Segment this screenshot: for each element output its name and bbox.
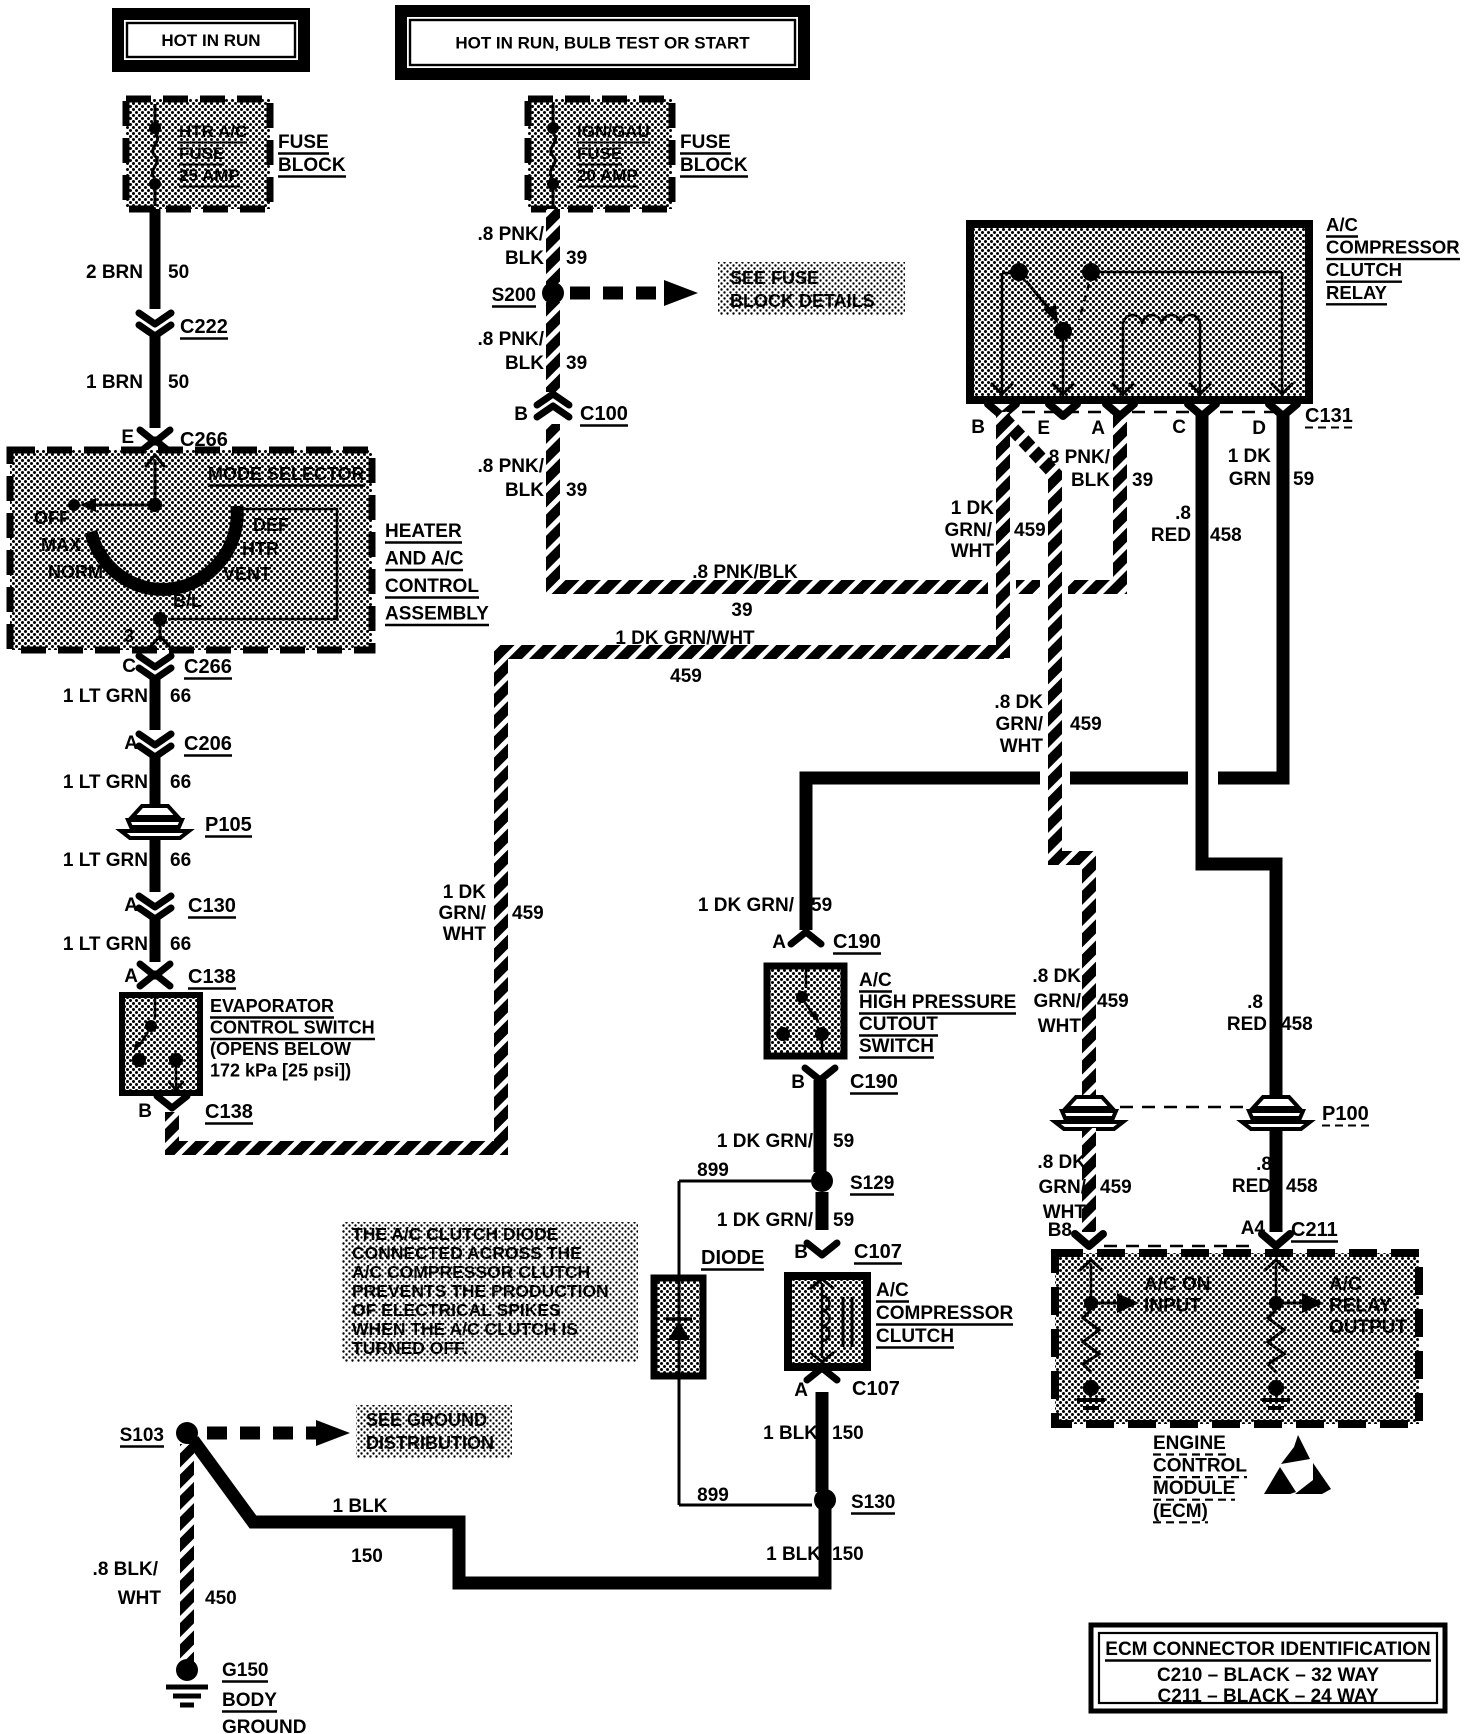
svg-text:.8 BLK/: .8 BLK/: [93, 1559, 159, 1580]
svg-text:PREVENTS THE PRODUCTION: PREVENTS THE PRODUCTION: [352, 1281, 609, 1301]
svg-text:.8: .8: [1247, 992, 1263, 1013]
svg-text:S103: S103: [120, 1425, 164, 1446]
svg-text:GRN: GRN: [1229, 469, 1271, 490]
svg-text:A/C: A/C: [1326, 214, 1358, 235]
svg-text:ASSEMBLY: ASSEMBLY: [385, 604, 489, 625]
svg-text:P100: P100: [1322, 1103, 1369, 1125]
svg-text:39: 39: [566, 353, 587, 374]
svg-text:66: 66: [170, 686, 191, 707]
svg-text:FUSE: FUSE: [278, 132, 329, 153]
svg-text:WHT: WHT: [443, 924, 487, 945]
svg-text:BLK: BLK: [505, 353, 544, 374]
svg-text:A/C: A/C: [1329, 1274, 1362, 1295]
svg-text:C107: C107: [852, 1378, 900, 1400]
svg-text:C138: C138: [188, 966, 236, 988]
svg-text:39: 39: [566, 248, 587, 269]
svg-text:59: 59: [833, 1210, 854, 1231]
svg-text:COMPRESSOR: COMPRESSOR: [1326, 237, 1460, 258]
svg-text:HTR: HTR: [242, 539, 279, 559]
svg-text:50: 50: [168, 372, 189, 393]
svg-text:GRN/: GRN/: [1034, 991, 1082, 1012]
svg-text:RED: RED: [1232, 1176, 1272, 1197]
svg-text:A/C: A/C: [859, 970, 892, 991]
svg-text:WHEN THE A/C CLUTCH IS: WHEN THE A/C CLUTCH IS: [352, 1319, 578, 1339]
svg-text:HOT IN RUN, BULB TEST OR START: HOT IN RUN, BULB TEST OR START: [455, 34, 750, 53]
svg-text:66: 66: [170, 934, 191, 955]
svg-text:SWITCH: SWITCH: [859, 1036, 934, 1057]
svg-text:1 BLK: 1 BLK: [766, 1544, 821, 1565]
svg-text:A/C ON: A/C ON: [1144, 1274, 1211, 1295]
svg-text:66: 66: [170, 772, 191, 793]
svg-text:G150: G150: [222, 1660, 268, 1681]
svg-text:1 LT GRN: 1 LT GRN: [63, 934, 148, 955]
svg-text:B: B: [791, 1072, 805, 1093]
svg-text:C222: C222: [180, 316, 228, 338]
svg-text:GROUND: GROUND: [222, 1717, 306, 1734]
svg-text:HTR A/C: HTR A/C: [179, 122, 247, 141]
svg-text:C211 – BLACK – 24 WAY: C211 – BLACK – 24 WAY: [1157, 1686, 1378, 1707]
svg-text:MAX: MAX: [41, 535, 81, 555]
svg-text:OFF: OFF: [34, 508, 70, 528]
svg-text:459: 459: [1014, 520, 1046, 541]
svg-text:A/C COMPRESSOR CLUTCH: A/C COMPRESSOR CLUTCH: [352, 1262, 590, 1282]
svg-text:59: 59: [1293, 469, 1314, 490]
svg-text:WHT: WHT: [1038, 1016, 1082, 1037]
svg-text:C107: C107: [854, 1241, 902, 1263]
svg-text:C266: C266: [184, 656, 232, 678]
svg-text:AND A/C: AND A/C: [385, 549, 464, 570]
svg-text:20 AMP: 20 AMP: [577, 166, 638, 185]
svg-text:459: 459: [1100, 1177, 1132, 1198]
svg-text:B: B: [794, 1242, 808, 1263]
svg-text:39: 39: [1132, 470, 1153, 491]
svg-text:1 BLK: 1 BLK: [763, 1423, 818, 1444]
svg-text:E: E: [1037, 418, 1050, 439]
svg-text:(OPENS BELOW: (OPENS BELOW: [210, 1039, 351, 1059]
svg-text:1 DK GRN/: 1 DK GRN/: [717, 1210, 814, 1231]
svg-text:150: 150: [832, 1423, 864, 1444]
svg-text:GRN/: GRN/: [439, 903, 487, 924]
svg-text:WHT: WHT: [951, 541, 995, 562]
svg-text:BLK: BLK: [505, 248, 544, 269]
svg-text:GRN/: GRN/: [945, 520, 993, 541]
svg-text:BLK: BLK: [1071, 470, 1110, 491]
svg-text:458: 458: [1286, 1176, 1318, 1197]
svg-text:.8 PNK/BLK: .8 PNK/BLK: [692, 562, 798, 583]
svg-text:S130: S130: [851, 1492, 895, 1513]
svg-text:459: 459: [670, 666, 702, 687]
svg-text:E: E: [121, 427, 134, 448]
svg-text:459: 459: [512, 903, 544, 924]
svg-text:A: A: [772, 932, 786, 953]
svg-text:MODULE: MODULE: [1153, 1478, 1235, 1499]
svg-text:450: 450: [205, 1588, 237, 1609]
svg-text:A: A: [124, 966, 138, 987]
svg-text:59: 59: [811, 895, 832, 916]
svg-text:B/L: B/L: [173, 591, 202, 611]
svg-text:899: 899: [697, 1160, 729, 1181]
svg-text:C: C: [1172, 417, 1186, 438]
svg-text:P105: P105: [205, 814, 252, 836]
svg-text:.8 PNK/: .8 PNK/: [477, 224, 544, 245]
svg-text:RED: RED: [1227, 1014, 1267, 1035]
svg-text:66: 66: [170, 850, 191, 871]
svg-text:A: A: [124, 733, 138, 754]
svg-text:CLUTCH: CLUTCH: [876, 1326, 954, 1347]
svg-text:DIODE: DIODE: [701, 1247, 764, 1269]
svg-text:A: A: [794, 1380, 808, 1401]
svg-text:1 DK: 1 DK: [951, 498, 995, 519]
svg-text:C130: C130: [188, 895, 236, 917]
svg-text:FUSE: FUSE: [577, 144, 622, 163]
svg-text:HOT IN RUN: HOT IN RUN: [161, 31, 260, 50]
svg-text:458: 458: [1281, 1014, 1313, 1035]
svg-text:HEATER: HEATER: [385, 521, 462, 542]
svg-text:THE A/C CLUTCH DIODE: THE A/C CLUTCH DIODE: [352, 1224, 558, 1244]
svg-text:BODY: BODY: [222, 1690, 277, 1711]
svg-text:B8: B8: [1048, 1220, 1072, 1241]
svg-text:25 AMP: 25 AMP: [179, 166, 240, 185]
svg-text:1 LT GRN: 1 LT GRN: [63, 850, 148, 871]
svg-text:S129: S129: [850, 1173, 894, 1194]
svg-text:1 LT GRN: 1 LT GRN: [63, 686, 148, 707]
svg-text:150: 150: [832, 1544, 864, 1565]
svg-text:CLUTCH: CLUTCH: [1326, 259, 1402, 280]
svg-text:458: 458: [1210, 525, 1242, 546]
svg-text:TURNED OFF.: TURNED OFF.: [352, 1338, 468, 1358]
svg-text:S200: S200: [492, 285, 536, 306]
svg-text:1 DK: 1 DK: [1228, 446, 1272, 467]
svg-text:FUSE: FUSE: [680, 132, 731, 153]
svg-text:1 DK GRN/: 1 DK GRN/: [698, 895, 795, 916]
svg-text:C: C: [122, 656, 136, 677]
svg-text:1 LT GRN: 1 LT GRN: [63, 772, 148, 793]
svg-text:MODE SELECTOR: MODE SELECTOR: [208, 464, 365, 484]
svg-text:B: B: [971, 417, 985, 438]
svg-text:BLOCK: BLOCK: [278, 155, 346, 176]
svg-text:50: 50: [168, 262, 189, 283]
svg-text:SEE FUSE: SEE FUSE: [730, 268, 819, 288]
svg-text:OF ELECTRICAL SPIKES: OF ELECTRICAL SPIKES: [352, 1300, 561, 1320]
svg-text:NORM: NORM: [48, 562, 103, 582]
svg-text:RELAY: RELAY: [1326, 282, 1388, 303]
svg-text:2 BRN: 2 BRN: [86, 262, 143, 283]
svg-text:C138: C138: [205, 1101, 253, 1123]
svg-text:BLOCK: BLOCK: [680, 155, 748, 176]
svg-text:CONTROL: CONTROL: [1153, 1456, 1247, 1477]
svg-text:D: D: [1252, 418, 1266, 439]
svg-text:.8 DK: .8 DK: [994, 692, 1043, 713]
svg-text:IGN/GAU: IGN/GAU: [577, 122, 650, 141]
svg-text:1 DK GRN/: 1 DK GRN/: [717, 1131, 814, 1152]
svg-text:WHT: WHT: [118, 1588, 162, 1609]
svg-text:WHT: WHT: [1000, 736, 1044, 757]
svg-text:DISTRIBUTION: DISTRIBUTION: [366, 1433, 494, 1453]
svg-text:HIGH PRESSURE: HIGH PRESSURE: [859, 992, 1016, 1013]
svg-text:150: 150: [351, 1546, 383, 1567]
svg-text:BLK: BLK: [505, 480, 544, 501]
svg-text:C131: C131: [1305, 405, 1353, 427]
svg-text:.8: .8: [1175, 503, 1191, 524]
svg-text:.8 DK: .8 DK: [1032, 966, 1081, 987]
svg-text:899: 899: [697, 1485, 729, 1506]
svg-text:C206: C206: [184, 733, 232, 755]
svg-text:A4: A4: [1241, 1218, 1266, 1239]
svg-text:SEE GROUND: SEE GROUND: [366, 1410, 487, 1430]
svg-text:OUTPUT: OUTPUT: [1329, 1317, 1408, 1338]
svg-text:ENGINE: ENGINE: [1153, 1433, 1226, 1454]
svg-text:459: 459: [1097, 991, 1129, 1012]
svg-text:B: B: [138, 1101, 152, 1122]
svg-text:.8: .8: [1256, 1154, 1272, 1175]
svg-text:.8 DK: .8 DK: [1037, 1152, 1086, 1173]
svg-text:CONTROL: CONTROL: [385, 576, 479, 597]
svg-text:(ECM): (ECM): [1153, 1501, 1208, 1522]
svg-text:INPUT: INPUT: [1144, 1296, 1201, 1317]
svg-text:BLOCK DETAILS: BLOCK DETAILS: [730, 291, 875, 311]
svg-text:1 DK GRN/WHT: 1 DK GRN/WHT: [615, 628, 755, 649]
svg-text:CUTOUT: CUTOUT: [859, 1014, 938, 1035]
svg-text:VENT: VENT: [223, 564, 271, 584]
svg-text:C211: C211: [1291, 1219, 1338, 1241]
svg-text:3: 3: [124, 626, 134, 646]
svg-text:DEF: DEF: [253, 515, 289, 535]
svg-text:A: A: [1091, 418, 1105, 439]
svg-text:39: 39: [566, 480, 587, 501]
svg-text:.8 PNK/: .8 PNK/: [477, 329, 544, 350]
svg-text:.8 PNK/: .8 PNK/: [477, 456, 544, 477]
svg-text:C190: C190: [833, 931, 881, 953]
svg-text:RELAY: RELAY: [1329, 1296, 1392, 1317]
svg-text:C190: C190: [850, 1071, 898, 1093]
svg-text:C210 – BLACK – 32 WAY: C210 – BLACK – 32 WAY: [1157, 1665, 1379, 1686]
svg-text:1 DK: 1 DK: [443, 882, 487, 903]
svg-text:39: 39: [731, 600, 752, 621]
svg-text:COMPRESSOR: COMPRESSOR: [876, 1303, 1014, 1324]
svg-text:A/C: A/C: [876, 1280, 909, 1301]
svg-text:GRN/: GRN/: [996, 714, 1044, 735]
svg-text:59: 59: [833, 1131, 854, 1152]
svg-text:ECM CONNECTOR IDENTIFICATION: ECM CONNECTOR IDENTIFICATION: [1105, 1639, 1430, 1660]
svg-text:1 BLK: 1 BLK: [333, 1496, 388, 1517]
svg-text:A: A: [124, 895, 138, 916]
svg-text:1 BRN: 1 BRN: [86, 372, 143, 393]
svg-text:459: 459: [1070, 714, 1102, 735]
svg-text:EVAPORATOR: EVAPORATOR: [210, 996, 334, 1016]
svg-text:CONNECTED ACROSS THE: CONNECTED ACROSS THE: [352, 1243, 582, 1263]
svg-text:RED: RED: [1151, 525, 1191, 546]
svg-text:C100: C100: [580, 403, 628, 425]
svg-text:CONTROL SWITCH: CONTROL SWITCH: [210, 1018, 375, 1038]
svg-text:GRN/: GRN/: [1039, 1177, 1087, 1198]
svg-text:172 kPa [25 psi]): 172 kPa [25 psi]): [210, 1061, 351, 1081]
svg-text:FUSE: FUSE: [179, 144, 224, 163]
svg-text:B: B: [514, 404, 528, 425]
